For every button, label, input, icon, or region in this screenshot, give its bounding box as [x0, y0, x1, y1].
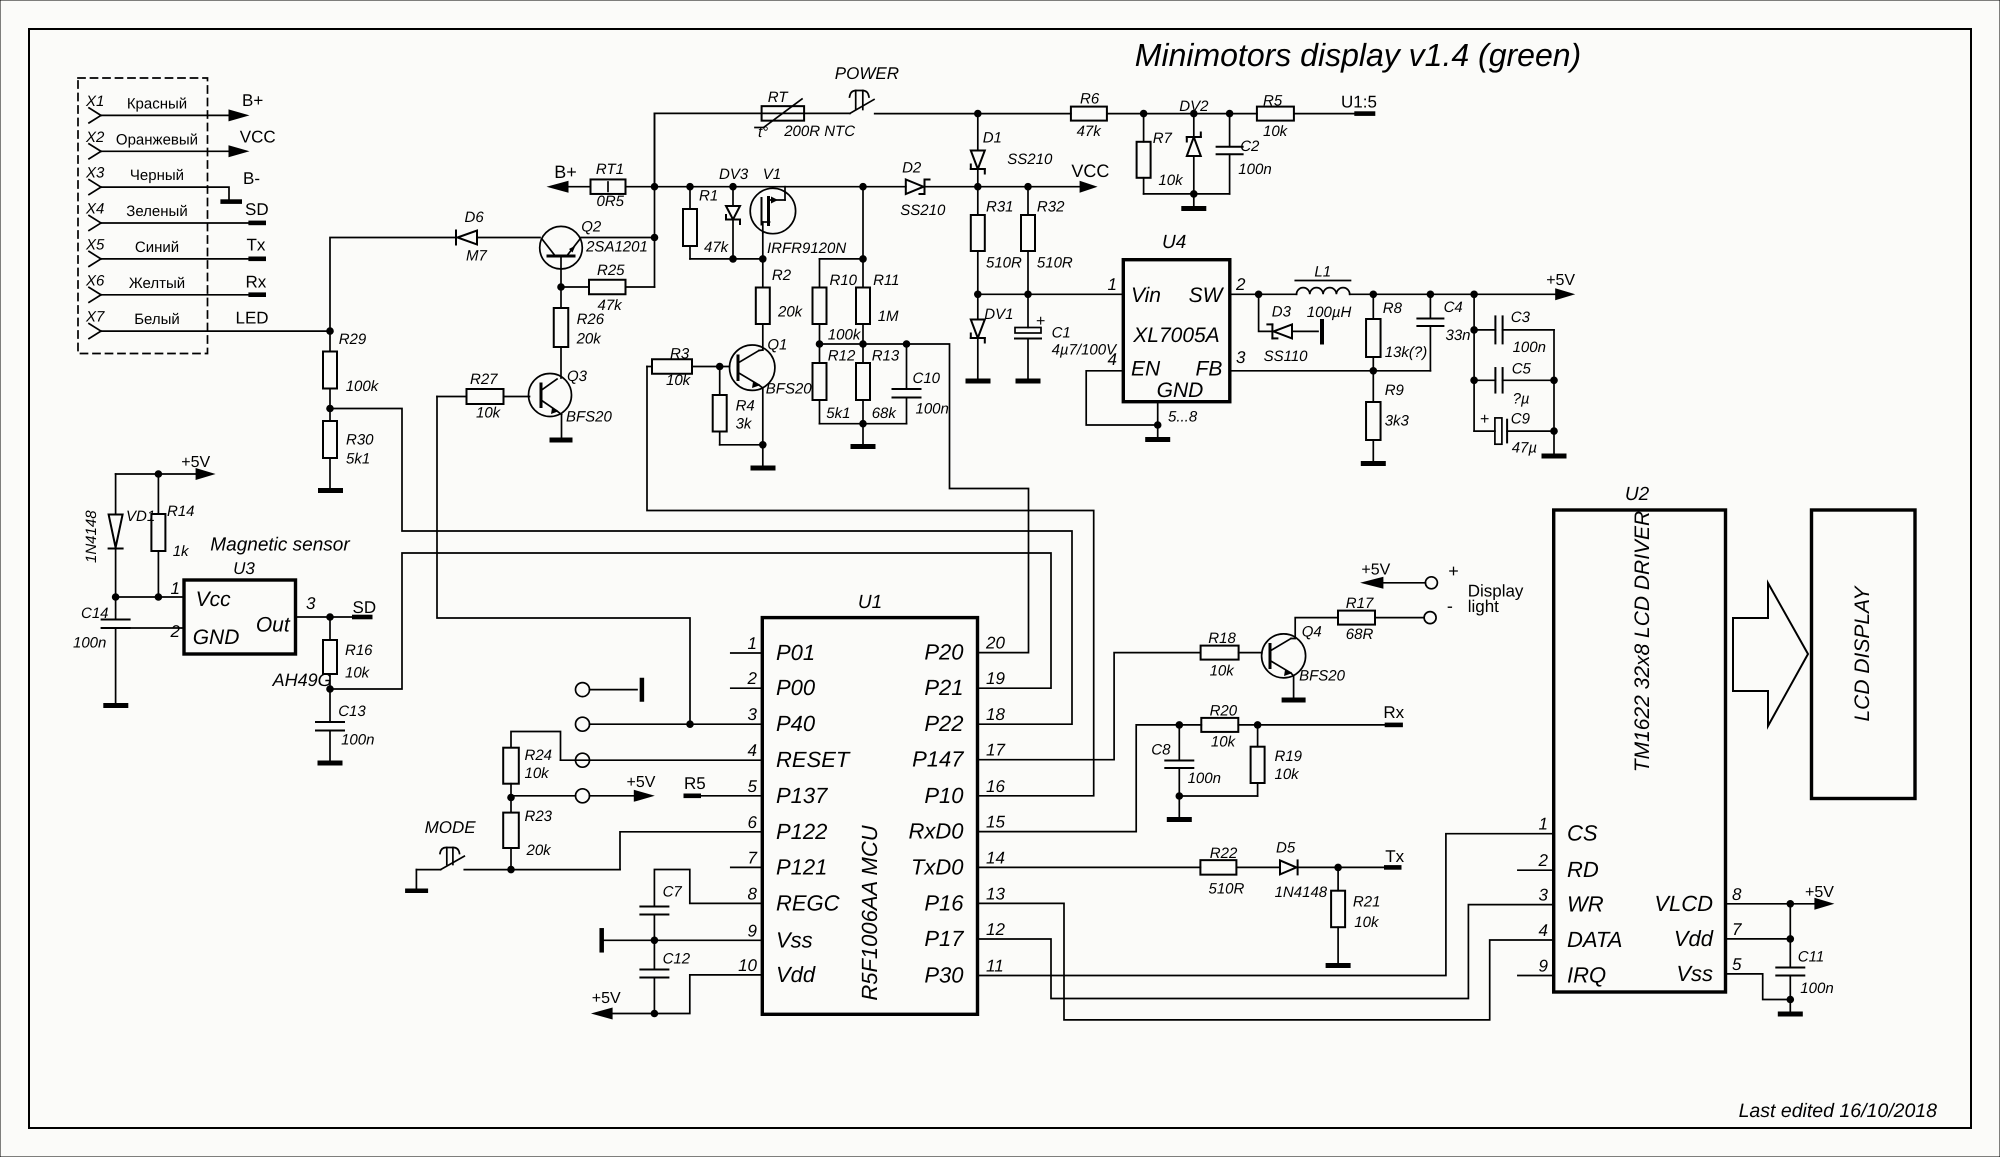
connector pin X7 Белый — [85, 309, 330, 339]
resistor R9 — [1366, 371, 1409, 461]
svg-text:R26: R26 — [577, 311, 605, 328]
transistor Q1 — [730, 337, 813, 398]
svg-text:FB: FB — [1196, 358, 1223, 381]
resistor R30 — [323, 409, 374, 489]
svg-text:C14: C14 — [81, 605, 109, 622]
svg-text:DATA: DATA — [1567, 927, 1622, 952]
svg-text:SS110: SS110 — [1264, 348, 1309, 365]
svg-text:U4: U4 — [1162, 232, 1186, 253]
resistor R21 — [1331, 867, 1380, 963]
svg-text:5k1: 5k1 — [346, 451, 370, 468]
svg-text:SS210: SS210 — [1007, 151, 1053, 168]
wire V1 drain down — [762, 233, 764, 259]
resistor R12 — [813, 344, 856, 424]
svg-text:SD: SD — [245, 200, 269, 219]
capacitor C7 — [640, 884, 682, 941]
svg-text:TxD0: TxD0 — [911, 854, 964, 879]
svg-text:Q4: Q4 — [1302, 624, 1322, 641]
net stub R5 — [684, 774, 706, 798]
wire pad2 to P40 — [590, 723, 763, 725]
svg-text:REGC: REGC — [776, 890, 840, 915]
stub RD unconnected — [1518, 869, 1554, 871]
svg-text:5...8: 5...8 — [1168, 409, 1198, 426]
wire gate node row — [690, 258, 763, 260]
svg-text:+5V: +5V — [627, 774, 656, 791]
svg-text:R12: R12 — [828, 348, 856, 365]
svg-text:10k: 10k — [1354, 914, 1380, 931]
svg-text:U2: U2 — [1625, 484, 1650, 505]
node R29-R30 junction — [326, 405, 334, 413]
resistor R26 — [554, 287, 605, 378]
pin 1 U4 — [1108, 275, 1117, 294]
resistor R29 — [323, 331, 380, 409]
wire R3 to P10 — [647, 367, 1094, 796]
svg-text:R17: R17 — [1346, 595, 1374, 612]
resistor R3 — [647, 346, 730, 390]
node divider mid junctions — [816, 340, 911, 348]
resistor R10 — [813, 259, 862, 344]
svg-text:RT1: RT1 — [596, 161, 624, 178]
svg-text:Оранжевый: Оранжевый — [116, 131, 198, 148]
wire R7-DV2-C2 bottom rail — [1144, 193, 1230, 195]
node VCC rail junctions — [974, 183, 1032, 191]
node SW junction — [1255, 291, 1263, 299]
terminal circle minus — [1424, 596, 1453, 624]
pin 4 U1 RESET — [748, 741, 851, 772]
node Rx junctions — [1176, 721, 1262, 729]
svg-text:R8: R8 — [1383, 300, 1403, 317]
wire divider bottom rail — [820, 423, 907, 425]
pin 1 U3 — [171, 579, 180, 598]
svg-text:X1: X1 — [85, 93, 104, 110]
svg-text:2SA1201: 2SA1201 — [585, 239, 648, 256]
node LED junction — [326, 327, 334, 335]
zener DV3 — [719, 166, 749, 259]
svg-text:68R: 68R — [1346, 626, 1374, 643]
ground under U4 — [1145, 437, 1170, 442]
svg-text:R27: R27 — [470, 371, 498, 388]
pad circle 1 — [576, 683, 590, 697]
svg-text:V1: V1 — [763, 166, 781, 183]
ground under divider — [851, 424, 876, 449]
svg-text:IRQ: IRQ — [1567, 963, 1606, 988]
svg-text:Черный: Черный — [130, 167, 184, 184]
net stub Rx — [1383, 703, 1404, 727]
svg-text:X2: X2 — [85, 129, 105, 146]
net flag +5V sensor — [116, 454, 216, 480]
capacitor C13 — [316, 689, 374, 761]
wire U4 EN to GND — [1086, 371, 1158, 425]
svg-text:DV2: DV2 — [1179, 98, 1209, 115]
capacitor C8 — [1151, 725, 1221, 796]
svg-text:U3: U3 — [233, 559, 255, 578]
pin 17 U1 P147 — [912, 741, 1005, 772]
svg-text:LED: LED — [236, 308, 269, 327]
resistor R27 — [437, 371, 530, 422]
svg-text:4: 4 — [1108, 350, 1117, 369]
svg-text:1N4148: 1N4148 — [1275, 884, 1328, 901]
svg-text:D1: D1 — [983, 130, 1002, 147]
svg-text:100n: 100n — [1238, 161, 1271, 178]
svg-text:7: 7 — [1732, 920, 1742, 939]
svg-text:9: 9 — [748, 921, 758, 940]
svg-text:+5V: +5V — [181, 454, 210, 471]
svg-text:100µH: 100µH — [1307, 304, 1352, 321]
svg-text:C12: C12 — [663, 951, 691, 968]
svg-text:Q3: Q3 — [567, 368, 588, 385]
connector pin X1 Красный — [85, 93, 250, 123]
resistor R22 — [1200, 845, 1280, 898]
wire SW to L1 — [1230, 293, 1297, 295]
svg-text:Зеленый: Зеленый — [126, 203, 187, 220]
wire FB row — [1230, 370, 1431, 372]
net stub SD at sensor — [352, 598, 376, 619]
ground under C11 — [1778, 1000, 1803, 1017]
node cap rail junctions — [1470, 326, 1478, 384]
svg-text:TM1622 32x8 LCD DRIVER: TM1622 32x8 LCD DRIVER — [1631, 511, 1654, 772]
svg-text:100n: 100n — [73, 635, 106, 652]
resistor R32 — [1021, 187, 1073, 295]
svg-text:P20: P20 — [924, 640, 964, 665]
svg-text:P00: P00 — [776, 675, 816, 700]
zener D1 — [971, 114, 1053, 187]
svg-text:0R5: 0R5 — [597, 193, 625, 210]
svg-text:3: 3 — [1236, 348, 1246, 367]
wire LED node to D6 — [330, 238, 456, 332]
node +5V rail junctions — [1370, 291, 1478, 299]
capacitor C4 — [1417, 294, 1470, 371]
svg-text:LCD DISPLAY: LCD DISPLAY — [1851, 585, 1874, 722]
wire Vcc pin row — [116, 596, 184, 598]
svg-text:7: 7 — [748, 848, 758, 867]
svg-text:18: 18 — [986, 705, 1005, 724]
resistor R11 — [856, 259, 900, 344]
node sensor +5V junction — [155, 470, 163, 478]
node gate row junctions — [729, 255, 766, 263]
connector pin X5 Синий — [85, 236, 266, 266]
svg-text:IRFR9120N: IRFR9120N — [767, 240, 846, 257]
svg-text:P147: P147 — [912, 747, 964, 772]
node Q2 emitter rail junction — [651, 234, 659, 242]
svg-text:47k: 47k — [704, 239, 730, 256]
svg-text:B+: B+ — [554, 162, 577, 182]
connector pin X2 Оранжевый — [85, 129, 250, 159]
node Vin row junctions — [974, 291, 1032, 299]
fusible resistor RT1 — [591, 161, 626, 210]
resistor R13 — [856, 344, 900, 424]
stub bar pad1 — [640, 680, 645, 700]
svg-text:BFS20: BFS20 — [1299, 668, 1346, 685]
svg-text:R31: R31 — [986, 199, 1014, 216]
pin 1 U1 P01 — [731, 634, 815, 665]
svg-text:100n: 100n — [1800, 980, 1833, 997]
svg-text:DV1: DV1 — [984, 306, 1013, 323]
node Q1 base junction — [716, 363, 724, 371]
wire P17 to WR — [978, 905, 1554, 999]
svg-text:WR: WR — [1567, 892, 1604, 917]
pin 9 U1 Vss — [748, 921, 813, 952]
svg-text:16: 16 — [986, 777, 1005, 796]
capacitor C5 — [1474, 361, 1554, 408]
ground under C14 — [103, 703, 128, 708]
node divider top junction — [859, 255, 867, 263]
wire Vdd route — [613, 975, 763, 1014]
node R23 bottom junction — [507, 866, 515, 874]
svg-text:C1: C1 — [1052, 325, 1071, 342]
ground under C13 — [318, 761, 343, 766]
net flag +5V output — [1546, 272, 1575, 300]
wire R6 to R5 — [1107, 113, 1257, 115]
thermistor RT — [755, 89, 855, 141]
svg-text:19: 19 — [986, 669, 1005, 688]
label MODE — [425, 818, 477, 837]
svg-text:C10: C10 — [913, 370, 941, 387]
net label Tx at X5 — [247, 236, 266, 255]
pin 5 U1 P137 — [748, 777, 829, 808]
svg-text:Синий: Синий — [135, 239, 179, 256]
svg-text:?µ: ?µ — [1513, 391, 1530, 408]
zener DV2 — [1179, 98, 1209, 194]
resistor R14 — [151, 474, 194, 597]
svg-text:20k: 20k — [576, 331, 603, 348]
pin 3 U4 — [1236, 348, 1246, 367]
svg-text:10k: 10k — [1275, 766, 1301, 783]
capacitor C9 — [1474, 411, 1554, 457]
wire VLCD to +5V — [1726, 903, 1815, 905]
node Out junction — [326, 613, 334, 621]
node FB junction — [1370, 367, 1378, 375]
svg-text:8: 8 — [1732, 885, 1742, 904]
node VLCD junction — [1787, 900, 1795, 908]
wire TxD0 to R22 — [978, 866, 1201, 868]
svg-text:Белый: Белый — [134, 311, 180, 328]
ground under caps — [1542, 454, 1567, 459]
resistor R25 — [561, 262, 655, 314]
svg-text:1M: 1M — [878, 308, 899, 325]
svg-text:6: 6 — [748, 813, 758, 832]
wire P30 to CS — [978, 834, 1554, 976]
net flag +5V at Vdd — [591, 990, 621, 1020]
svg-text:100n: 100n — [1513, 339, 1546, 356]
svg-text:P10: P10 — [924, 783, 964, 808]
svg-text:BFS20: BFS20 — [766, 380, 813, 397]
node Vdd-C12 junction — [651, 1010, 659, 1018]
svg-text:R7: R7 — [1153, 130, 1173, 147]
pin 8 U2 VLCD — [1654, 885, 1742, 916]
pin 2 U1 P00 — [731, 669, 816, 700]
svg-text:U1: U1 — [858, 592, 882, 613]
svg-text:R29: R29 — [339, 331, 367, 348]
svg-text:B-: B- — [243, 169, 260, 188]
svg-text:10k: 10k — [525, 765, 551, 782]
svg-text:9: 9 — [1539, 957, 1549, 976]
svg-text:B+: B+ — [242, 91, 263, 110]
node Tx junction — [1334, 864, 1342, 872]
resistor R18 — [1201, 630, 1262, 680]
svg-text:5: 5 — [748, 777, 758, 796]
svg-text:10k: 10k — [345, 665, 371, 682]
svg-text:P17: P17 — [924, 926, 964, 951]
pin 16 U1 P10 — [924, 777, 1005, 808]
svg-text:C4: C4 — [1444, 299, 1463, 316]
wire Q2 base down — [560, 269, 562, 287]
diode VD1 — [83, 474, 155, 597]
svg-text:100n: 100n — [341, 732, 374, 749]
wire GND pin row — [116, 627, 184, 629]
note last-edited — [1739, 1100, 1938, 1122]
svg-text:+5V: +5V — [1805, 884, 1834, 901]
pin 3 U3 — [306, 594, 316, 613]
svg-text:D5: D5 — [1276, 839, 1296, 856]
wire POWER switch to D1 node — [875, 113, 1071, 115]
svg-text:17: 17 — [986, 741, 1005, 760]
svg-text:20: 20 — [985, 634, 1005, 653]
svg-text:RT: RT — [768, 89, 790, 106]
pad circle 3 — [576, 753, 590, 767]
svg-text:R16: R16 — [345, 642, 373, 659]
svg-text:Vss: Vss — [1676, 961, 1713, 986]
wire R23 to P122 — [511, 869, 620, 871]
svg-text:47µ: 47µ — [1512, 440, 1537, 457]
ground under MODE — [405, 889, 428, 894]
svg-text:R20: R20 — [1210, 703, 1238, 720]
node R16-C13 junction — [326, 685, 334, 693]
svg-text:Rx: Rx — [246, 272, 267, 291]
svg-text:1: 1 — [171, 579, 180, 598]
svg-text:D2: D2 — [902, 160, 922, 177]
svg-text:C11: C11 — [1798, 949, 1824, 966]
svg-text:1k: 1k — [173, 543, 190, 560]
wire R27 to P40 node — [437, 397, 690, 725]
svg-text:13k(?): 13k(?) — [1385, 344, 1428, 361]
svg-text:1: 1 — [1539, 815, 1548, 834]
pad circle 4 — [576, 789, 590, 803]
svg-text:Vdd: Vdd — [1674, 926, 1714, 951]
svg-text:510R: 510R — [1037, 255, 1073, 272]
svg-text:10k: 10k — [1263, 123, 1289, 140]
svg-text:510R: 510R — [1209, 881, 1245, 898]
pin 3 U1 P40 — [748, 705, 816, 736]
transistor Q2 — [540, 219, 648, 270]
svg-text:1N4148: 1N4148 — [83, 510, 100, 563]
node Q1 emitter-R4 junction — [759, 441, 767, 449]
svg-text:100n: 100n — [1188, 770, 1221, 787]
svg-text:D6: D6 — [465, 209, 485, 226]
IC U4 XL7005A box — [1123, 232, 1230, 402]
svg-text:3k3: 3k3 — [1385, 413, 1410, 430]
pin 3 U2 WR — [1539, 886, 1604, 917]
wire R5 stub to pin5 — [701, 795, 762, 797]
connector pin X3 Черный — [85, 165, 242, 204]
svg-text:R3: R3 — [670, 346, 690, 363]
wire R24 top to RESET — [511, 732, 561, 761]
net stub U1:5 — [1341, 93, 1377, 116]
net flag +5V VLCD — [1805, 884, 1834, 910]
capacitor C14 — [73, 597, 130, 703]
pin 8 U1 REGC — [748, 884, 840, 915]
wire Vin row — [978, 293, 1124, 295]
resistor R1 — [683, 187, 730, 259]
wire Out pin row — [296, 616, 353, 618]
ground under Q3 — [550, 438, 573, 443]
svg-text:R5F1006AA MCU: R5F1006AA MCU — [857, 825, 882, 1000]
net flag VCC — [1071, 161, 1109, 193]
ground under R30 — [318, 488, 343, 493]
resistor R20 — [1201, 703, 1384, 751]
svg-text:10k: 10k — [666, 372, 692, 389]
svg-text:t°: t° — [758, 124, 768, 141]
svg-text:D3: D3 — [1272, 304, 1292, 321]
wire B+ feed vertical — [654, 113, 656, 287]
svg-text:10k: 10k — [1211, 734, 1237, 751]
svg-text:SD: SD — [353, 598, 377, 617]
wire divider mid rail — [820, 343, 907, 345]
svg-text:11: 11 — [986, 957, 1004, 976]
wire MODE to R23 — [464, 869, 511, 871]
svg-text:R18: R18 — [1208, 630, 1236, 647]
svg-text:R5: R5 — [684, 774, 706, 793]
pin 10 U1 Vdd — [738, 956, 816, 987]
svg-text:C7: C7 — [663, 884, 683, 901]
svg-text:P21: P21 — [924, 675, 963, 700]
svg-text:R1: R1 — [699, 188, 718, 205]
node Q2 base junction — [557, 283, 565, 291]
svg-text:R25: R25 — [597, 262, 625, 279]
svg-text:47k: 47k — [1077, 123, 1103, 140]
wire REGC to C7 — [654, 870, 762, 907]
svg-text:SW: SW — [1189, 284, 1225, 307]
svg-text:RxD0: RxD0 — [908, 819, 964, 844]
svg-text:GND: GND — [1157, 379, 1204, 402]
ground under C1 — [1016, 379, 1041, 384]
wire Vss row — [602, 939, 763, 941]
svg-text:15: 15 — [986, 813, 1005, 832]
svg-text:L1: L1 — [1314, 264, 1331, 281]
svg-text:12: 12 — [986, 920, 1005, 939]
svg-text:R9: R9 — [1385, 382, 1405, 399]
pad circle 2 — [576, 717, 590, 731]
svg-text:+: + — [1480, 411, 1489, 428]
svg-text:20k: 20k — [526, 842, 553, 859]
svg-text:R22: R22 — [1210, 845, 1238, 862]
diode D5 — [1275, 839, 1384, 901]
node C11 bottom junction — [1787, 996, 1795, 1004]
label POWER — [835, 64, 899, 83]
wire C8-R19 bottom — [1179, 795, 1257, 797]
pin 19 U1 P21 — [924, 669, 1005, 700]
svg-text:X7: X7 — [85, 309, 105, 326]
svg-text:100k: 100k — [346, 378, 380, 395]
pin 12 U1 P17 — [924, 920, 1005, 951]
wire RT1 to V1 rail — [626, 186, 906, 188]
svg-text:8: 8 — [748, 884, 758, 903]
svg-text:Красный: Красный — [127, 95, 187, 112]
net label B+ at X1 — [242, 91, 263, 110]
node Vdd junction — [1787, 935, 1795, 943]
svg-text:P16: P16 — [924, 890, 964, 915]
net label Rx at X6 — [246, 272, 267, 291]
svg-text:20k: 20k — [777, 304, 804, 321]
IC U1 R5F1006AA box — [762, 592, 977, 1014]
wire P147 to R18 — [978, 653, 1201, 760]
svg-text:R10: R10 — [830, 272, 858, 289]
svg-text:Vcc: Vcc — [196, 588, 232, 611]
svg-text:4: 4 — [1539, 921, 1548, 940]
svg-text:Желтый: Желтый — [129, 275, 185, 292]
pin 1 U2 CS — [1539, 815, 1598, 846]
node top rail junctions — [1140, 110, 1234, 118]
transistor Q3 — [529, 368, 613, 426]
